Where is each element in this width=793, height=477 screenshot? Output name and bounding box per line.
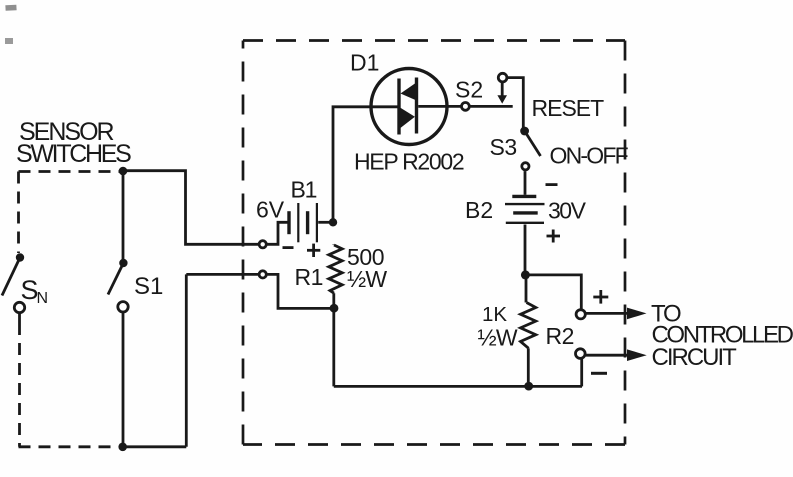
terminal: lower connector circle: [259, 271, 266, 278]
svg-text:HEP R2002: HEP R2002: [354, 149, 464, 175]
resistor R1: [329, 245, 342, 305]
B2 minus sign: [546, 183, 558, 186]
svg-text:ON-OFF: ON-OFF: [550, 143, 629, 169]
battery B2: [505, 196, 545, 222]
svg-text:B2: B2: [465, 197, 493, 223]
label TO CONTROLLED CIRCUIT: [651, 300, 793, 371]
main enclosure (dashed box): [243, 41, 625, 445]
svg-text:½W: ½W: [347, 266, 387, 292]
switch SN: [2, 253, 25, 323]
node: R1 bottom junction: [330, 304, 339, 313]
svg-text:D1: D1: [350, 50, 379, 76]
wire: riser up and into D1 anode: [333, 107, 398, 223]
wire: bottom rail: [334, 385, 582, 388]
svg-text:SWITCHES: SWITCHES: [16, 140, 131, 168]
wire: S2 contact stub: [470, 105, 513, 108]
wire: bottom junction to right riser: [123, 445, 187, 448]
node: B2/R2/plus-output junction: [521, 270, 530, 279]
wire: right riser to lower terminal: [186, 273, 258, 276]
wire: right riser vertical: [185, 274, 188, 446]
wire: minus terminal down to bottom rail: [580, 359, 583, 387]
svg-text:30V: 30V: [548, 198, 587, 224]
node: sensor top junction: [119, 167, 128, 176]
resistor R2: [521, 279, 536, 382]
terminal: upper connector circle: [259, 241, 266, 248]
svg-text:R2: R2: [546, 323, 574, 349]
wire: S3 to B2 negative: [524, 171, 527, 195]
B1 plus sign: [307, 244, 320, 257]
wire: top junction down to S1: [122, 171, 125, 260]
svg-text:S1: S1: [134, 273, 163, 300]
wire: lower terminal to R1 bottom node: [267, 274, 331, 308]
svg-text:N: N: [37, 290, 49, 307]
node: bottom rail junction: [524, 382, 533, 391]
wire: S2 upper contact to S3 node: [508, 78, 524, 128]
wire: sensor top junction to upper terminal: [123, 171, 258, 245]
svg-text:6V: 6V: [256, 197, 285, 223]
wire: upper terminal to B1 negative: [267, 222, 287, 244]
diode D1 (bidirectional trigger diode): [371, 69, 447, 145]
battery B1: [289, 203, 317, 242]
svg-text:RESET: RESET: [532, 95, 605, 121]
svg-text:S3: S3: [490, 134, 517, 160]
label SN: [21, 275, 49, 307]
node: sensor bottom junction: [118, 443, 127, 452]
svg-text:1K: 1K: [482, 303, 507, 326]
svg-text:R1: R1: [295, 264, 323, 290]
svg-text:½W: ½W: [478, 324, 518, 350]
wire: node to plus terminal: [525, 275, 581, 309]
terminal: minus output circle: [576, 349, 586, 359]
minus output sign: [591, 372, 607, 375]
switch S3: [520, 127, 540, 170]
switch S2 (reset pushbutton): [462, 73, 508, 110]
svg-text:B1: B1: [291, 177, 317, 203]
arrow: plus output lead: [586, 308, 647, 320]
svg-text:CIRCUIT: CIRCUIT: [652, 344, 738, 371]
switch S1: [108, 259, 128, 312]
svg-text:S2: S2: [455, 77, 483, 103]
terminal: plus output circle: [576, 310, 585, 319]
B1 minus sign: [283, 246, 294, 249]
node: B1/D1/R1 junction: [329, 218, 337, 226]
sensor switches enclosure (dashed box): [19, 172, 122, 447]
wire: R1 bottom down to bottom rail: [332, 308, 335, 386]
plus output sign: [593, 290, 608, 304]
wire: S1 bottom to bottom junction: [122, 312, 125, 447]
arrow: minus output lead: [586, 349, 647, 361]
wire: D1 cathode to S2 contact: [418, 105, 461, 108]
wire: B1 positive to riser node: [318, 221, 333, 224]
B2 plus sign: [547, 230, 561, 243]
wire: B2 positive down to output node: [524, 225, 527, 272]
